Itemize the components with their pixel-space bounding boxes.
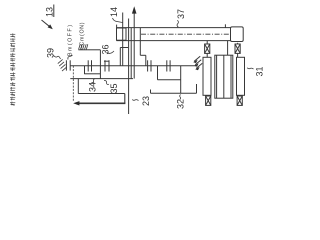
plate hub tick xyxy=(104,60,110,62)
leader squiggle 31 xyxy=(247,68,253,69)
caption text (figure title, vertical) xyxy=(10,33,15,105)
rotor inner walls xyxy=(216,55,218,98)
shaft 37 dash-dot centerline xyxy=(141,33,231,35)
leader squiggle Bm xyxy=(68,55,73,60)
right junction vertical xyxy=(180,66,182,93)
hub top corner xyxy=(120,47,128,49)
leader squiggle 23 xyxy=(132,100,138,101)
svg-text:13: 13 xyxy=(45,7,55,17)
shaft 14 vertical xyxy=(122,13,124,66)
svg-text:31: 31 xyxy=(254,66,264,76)
svg-text:23: 23 xyxy=(141,96,151,106)
lower shaft line right part xyxy=(157,66,159,80)
left hub corner xyxy=(84,66,86,74)
bottom bracket line xyxy=(151,92,197,94)
right stator xyxy=(237,57,245,95)
svg-text:36: 36 xyxy=(100,44,110,54)
Cm hub drop xyxy=(99,50,101,79)
bracket left stub xyxy=(150,90,152,94)
svg-text:32: 32 xyxy=(175,99,185,109)
hub line under clutches xyxy=(85,73,101,75)
case wall left xyxy=(77,79,79,94)
case wall right drop xyxy=(124,94,126,104)
brake Cm hatched block xyxy=(79,44,88,49)
hub step right xyxy=(158,79,181,81)
svg-text:34: 34 xyxy=(87,82,97,92)
motor-generator 31 : left stator xyxy=(203,57,211,95)
tick at left end of top rail xyxy=(116,25,118,28)
tick on top rail xyxy=(224,24,226,27)
clutch main line xyxy=(70,65,196,67)
svg-text:Cm(ON): Cm(ON) xyxy=(79,22,85,45)
clutch pair mid xyxy=(147,60,149,71)
up arrowhead xyxy=(132,6,137,13)
flow shaft vertical xyxy=(130,28,132,79)
dashed drop line xyxy=(72,66,74,102)
gear box on shaft 14 xyxy=(117,28,127,40)
Cm link line xyxy=(88,49,101,51)
shaft 37 right end cap xyxy=(231,27,244,42)
rotor link to shaft 37 xyxy=(227,41,229,56)
brake Bm plates xyxy=(65,60,67,70)
case bottom line xyxy=(78,93,125,95)
svg-text:Bm(OFF): Bm(OFF) xyxy=(67,25,73,56)
stator foot top-right xyxy=(235,43,240,58)
svg-text:39: 39 xyxy=(46,48,56,58)
leader squiggle 32 xyxy=(179,95,182,100)
long vertical wall xyxy=(128,19,130,115)
bar 37 left cap xyxy=(139,28,141,56)
top rail / case line xyxy=(117,27,231,29)
clutch pair 35 xyxy=(104,60,106,71)
vertical line 36 hub xyxy=(119,48,121,66)
leader squiggle 37 xyxy=(177,20,178,27)
brake Cm plate line xyxy=(78,49,87,51)
clutch pair right xyxy=(166,60,168,71)
stator foot bottom-left xyxy=(206,95,211,105)
leader 14 xyxy=(113,18,123,23)
spline hatch marks xyxy=(194,56,202,68)
shaft 37 bottom edge xyxy=(117,40,231,42)
clutch pair 34 xyxy=(87,60,89,71)
shaft with up arrow xyxy=(133,13,135,79)
leader squiggle 35 xyxy=(104,80,109,84)
svg-text:37: 37 xyxy=(176,9,186,19)
underline of 13 xyxy=(53,5,55,18)
stator foot bottom-right xyxy=(237,95,242,105)
leader squiggle 34 xyxy=(92,79,96,83)
leader squiggle Cm xyxy=(81,46,82,50)
rotor xyxy=(215,55,233,98)
stator foot top-left xyxy=(205,41,210,58)
leader squiggle 39 xyxy=(54,56,61,60)
left arrowhead xyxy=(73,101,79,105)
leader 36 xyxy=(107,51,115,53)
cap step drop xyxy=(145,55,147,66)
svg-text:14: 14 xyxy=(109,7,119,17)
brake Bm hatching (ground) xyxy=(58,59,67,71)
bold torque flow line xyxy=(76,102,125,104)
leader arrow of 13 xyxy=(42,20,53,29)
bracket right vertical xyxy=(196,84,198,93)
lower shaft line xyxy=(70,78,133,80)
svg-text:35: 35 xyxy=(109,83,119,93)
cap step horizontal xyxy=(140,54,146,56)
